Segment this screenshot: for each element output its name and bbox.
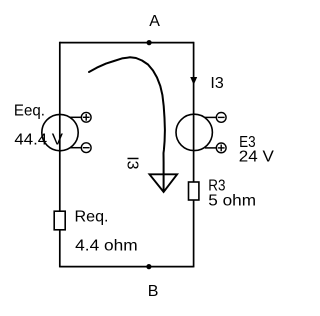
svg-text:Req.: Req.: [75, 209, 109, 226]
svg-text:A: A: [149, 13, 160, 30]
wire bottom (node B rail): [60, 266, 194, 268]
current annotation curved arrow I3 (hand-drawn stroke): [89, 57, 165, 190]
resistor Req (body): [54, 211, 65, 230]
wire right lower (R3 to B rail): [193, 200, 195, 267]
svg-text:44.4 V: 44.4 V: [14, 132, 63, 149]
wire left through Eeq source: [59, 115, 61, 152]
wire left upper (A to Eeq): [59, 42, 61, 115]
svg-text:4.4 ohm: 4.4 ohm: [75, 238, 138, 255]
wire top (node A rail): [60, 42, 194, 44]
svg-text:I3: I3: [210, 75, 223, 92]
wire left lower (Req to B rail): [59, 230, 61, 268]
svg-text:I3: I3: [123, 156, 140, 169]
E3 positive terminal (bottom right): [205, 143, 226, 153]
resistor R3 (body): [189, 182, 199, 200]
node B junction dot: [146, 264, 151, 269]
wire left middle (Eeq to Req): [59, 151, 61, 211]
wire right through E3 source: [193, 114, 195, 151]
voltage source Eeq (circle body): [42, 114, 78, 150]
E3 negative terminal (top right): [205, 113, 226, 123]
svg-text:B: B: [148, 283, 159, 300]
current arrow I3 on right wire: [190, 77, 197, 85]
wire right upper (A to E3): [193, 42, 195, 114]
svg-text:5 ohm: 5 ohm: [208, 192, 256, 209]
Eeq positive terminal (top right): [70, 112, 91, 122]
voltage source E3 (circle body): [176, 114, 212, 150]
node A junction dot: [147, 40, 152, 45]
Eeq negative terminal (bottom right): [70, 143, 91, 153]
svg-text:Eeq.: Eeq.: [14, 102, 45, 119]
current annotation arrowhead (open triangle): [150, 174, 178, 192]
svg-text:24 V: 24 V: [239, 149, 274, 166]
wire right middle (E3 to R3): [193, 151, 195, 182]
